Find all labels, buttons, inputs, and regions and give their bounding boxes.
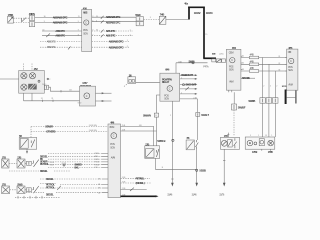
label column row1	[40, 155, 55, 166]
wire row4 left of ABS module	[42, 33, 82, 37]
relay left drop wire	[157, 95, 160, 146]
wire row4 CEM stub	[241, 77, 255, 80]
svg-text:ABS/ABS DTC: ABS/ABS DTC	[53, 16, 68, 19]
BCM bottom right row short	[121, 188, 147, 191]
pin labels on drops	[263, 86, 278, 88]
svg-text:SGN: SGN	[110, 147, 115, 149]
connector 24B	[42, 84, 49, 90]
relay right row3	[180, 84, 198, 87]
module 4/56 CEM	[226, 47, 241, 92]
ignition switch 7/8	[19, 135, 37, 154]
connector 3/6 mid	[124, 74, 136, 86]
wire sensor to connector row A	[13, 17, 29, 19]
dashed wire OTHERS row	[31, 130, 108, 133]
wire row3 CEM to right module	[241, 68, 287, 72]
wire 6A down to switch 7/8	[197, 116, 199, 140]
svg-text:17B9: 17B9	[252, 151, 258, 154]
bottom tick marks	[18, 196, 42, 199]
wire sensor to connector row B	[13, 22, 29, 24]
svg-text:BCM: BCM	[110, 127, 115, 129]
wire row3 left of ABS module	[42, 30, 82, 33]
svg-text:SGN: SGN	[288, 70, 293, 72]
node SW30 above relay module	[176, 60, 208, 73]
lamp unit box	[245, 137, 275, 154]
svg-text:4/4B: 4/4B	[250, 55, 255, 57]
wire row5 right of ABS module	[92, 41, 130, 44]
connector strip SW/6B	[248, 98, 278, 104]
svg-text:ABS DTC: ABS DTC	[47, 40, 56, 43]
svg-text:4/4B: 4/4B	[250, 62, 255, 64]
svg-text:DIESEL: DIESEL	[46, 193, 54, 196]
ABS module pin labels left	[78, 16, 81, 36]
BCM left pin labels lower	[98, 179, 108, 195]
dashed harness rows to BCM lower	[26, 179, 102, 193]
svg-text:F47 A: F47 A	[203, 65, 209, 68]
svg-text:POS: POS	[83, 30, 88, 32]
relay bottom drop V2	[170, 101, 173, 184]
node 53/60 B	[157, 139, 174, 143]
sensor 17B row2 a	[2, 184, 10, 194]
wire row1 right of ABS module	[92, 16, 136, 19]
svg-text:ABS/ABS DTC: ABS/ABS DTC	[106, 16, 121, 19]
relay 7/4B	[159, 14, 166, 25]
svg-text:AVM: AVM	[229, 80, 233, 83]
wire drop from row3	[274, 71, 276, 98]
svg-text:PETROL: PETROL	[136, 177, 145, 180]
svg-text:52/3B: 52/3B	[199, 169, 205, 173]
connector SW/9	[135, 14, 143, 26]
sensor 17B row2 b	[17, 184, 25, 194]
svg-text:ABS DTC: ABS DTC	[106, 35, 116, 38]
svg-text:ABS/ABS DTC: ABS/ABS DTC	[109, 41, 124, 44]
ground arrow V2	[167, 179, 173, 196]
wire drop from row1	[261, 58, 263, 98]
svg-text:(24V): (24V)	[219, 54, 223, 56]
bottom dashed stub row	[15, 196, 60, 198]
svg-text:POS: POS	[229, 67, 234, 69]
relay right row1	[180, 74, 198, 77]
wire SW/9 to relay	[144, 17, 160, 19]
svg-text:SGN: SGN	[83, 33, 88, 35]
svg-text:11C/34: 11C/34	[206, 12, 213, 15]
dashed drop to ignition switch	[30, 127, 32, 138]
svg-text:24-1B 10N: 24-1B 10N	[89, 125, 98, 127]
wire row4 right of ABS module	[92, 34, 133, 37]
feed wire horizontal to fuse row	[203, 57, 216, 59]
right module pin ticks left	[285, 58, 286, 72]
feed wire vertical 11C/34 down	[203, 7, 205, 59]
svg-text:ABS/ABS DTC: ABS/ABS DTC	[106, 21, 121, 24]
svg-text:ABS DTC: ABS DTC	[55, 35, 65, 38]
CEM pin ticks right	[241, 56, 242, 69]
connector 6A	[196, 113, 210, 118]
sensor 17B/4	[8, 14, 14, 23]
module 4/46 BCM	[108, 122, 121, 198]
connector 3/6 right	[232, 104, 246, 110]
svg-text:RELAY: RELAY	[162, 81, 170, 84]
right rows end pins	[127, 30, 132, 48]
wire drop to 6A connector	[197, 99, 199, 113]
relay right row2	[180, 77, 198, 80]
BCM right row2	[121, 130, 157, 132]
wire drop strip to lamp unit 3	[274, 103, 276, 137]
svg-text:ATM 6B: ATM 6B	[242, 77, 250, 80]
BCM bottom thick wire	[121, 194, 159, 197]
switch symbol row1	[34, 160, 39, 167]
wire switch to ground	[192, 150, 206, 197]
wire row6 right of ABS module	[92, 46, 130, 49]
ground wire from switch unit	[219, 150, 225, 197]
BCM right row1	[121, 125, 154, 146]
svg-text:DIESEL: DIESEL	[40, 170, 48, 173]
wire into cluster from left	[0, 78, 19, 80]
svg-text:SW/WN: SW/WN	[143, 114, 151, 117]
svg-text:SW30 BATT: SW30 BATT	[181, 74, 193, 77]
relay module 6/46	[160, 68, 180, 101]
svg-text:DIESEL: DIESEL	[46, 178, 54, 181]
wire fusebox to ground bus	[154, 158, 156, 169]
ground bracket right	[282, 86, 296, 104]
relay bottom right wire	[180, 97, 198, 99]
bus wire to POW module	[24, 98, 80, 102]
switch unit 17B/10	[221, 133, 240, 150]
svg-text:SW/BF: SW/BF	[238, 106, 246, 110]
svg-text:6413LT: 6413LT	[201, 113, 209, 117]
fuse box 17B left	[145, 143, 160, 158]
module 4/52 cluster	[19, 64, 45, 94]
wire row5 left of ABS module	[40, 40, 82, 43]
fuse row 4/49	[203, 53, 226, 69]
wire POW right upper with arrow	[96, 92, 112, 94]
wire 24B to POW module	[49, 87, 80, 91]
lamp unit top labels	[250, 135, 268, 137]
svg-text:SGN: SGN	[164, 99, 169, 101]
relay right row4	[180, 87, 198, 90]
wire row1 left of ABS module	[35, 16, 82, 19]
switch 7/8 right	[186, 137, 198, 150]
svg-text:53/60 B: 53/60 B	[157, 139, 165, 143]
junction 20-2B	[62, 163, 83, 169]
relay right row5	[180, 92, 198, 95]
wire diesel row1	[9, 170, 70, 173]
svg-text:CEM: CEM	[229, 52, 234, 54]
cluster drop wires	[24, 93, 33, 101]
svg-text:ABS DTC: ABS DTC	[106, 30, 116, 33]
pin labels above lamp unit	[258, 135, 273, 137]
svg-text:SENSR: SENSR	[45, 125, 53, 128]
svg-text:ABS DTC: ABS DTC	[55, 30, 65, 33]
wire drop strip to lamp unit 2	[268, 103, 270, 137]
power feed bracket 11C	[184, 3, 213, 20]
svg-text:POS: POS	[164, 96, 169, 98]
svg-text:POS: POS	[110, 144, 115, 146]
switch symbol S1	[22, 18, 27, 22]
wire row6 left of ABS module	[40, 46, 82, 50]
svg-text:11C/32: 11C/32	[194, 12, 201, 15]
svg-text:ABS DTC: ABS DTC	[47, 46, 56, 49]
ABS module pin labels right	[92, 16, 94, 37]
BCM left pin labels upper	[94, 153, 108, 169]
wire drop strip to lamp unit 1	[261, 103, 263, 137]
wire row2 left of ABS module	[35, 21, 82, 24]
wire POW right lower with arrow	[96, 100, 112, 102]
dashed wire SENSOR row	[31, 125, 108, 128]
svg-text:(DIESEL): (DIESEL)	[136, 182, 145, 185]
svg-text:NBI: NBI	[288, 52, 292, 54]
inline connector SW/WN	[143, 113, 159, 117]
inline connector row2	[27, 188, 32, 192]
svg-text:17B5: 17B5	[268, 151, 274, 154]
inline connector row1	[27, 161, 32, 165]
label column row2	[46, 178, 55, 197]
svg-text:AVM: AVM	[288, 84, 292, 87]
svg-text:AVM: AVM	[111, 157, 115, 160]
dashed harness rows to BCM upper	[48, 154, 102, 168]
wire row1 dashed	[9, 162, 33, 164]
svg-text:POS: POS	[288, 67, 293, 69]
wire row3 right of ABS module	[92, 30, 133, 33]
BCM bottom right row diesel	[121, 182, 152, 186]
module 4/56 right	[287, 47, 298, 90]
svg-text:ABS/ABS DTC: ABS/ABS DTC	[109, 46, 124, 49]
wire drop from row2	[268, 64, 270, 97]
ground bus wire	[155, 167, 196, 169]
wire row2 CEM to right module	[241, 62, 287, 66]
wire row2 right of ABS module	[92, 20, 136, 24]
dashed drop to switch unit	[233, 110, 235, 136]
sensor 17B row1 b	[17, 157, 25, 169]
module 4/16 ABS	[82, 7, 92, 51]
sensor 17B row1 a	[2, 157, 9, 169]
wire 3/6 to relay module	[136, 81, 160, 83]
svg-text:BKL: BKL	[75, 166, 80, 169]
svg-text:SW/6B: SW/6B	[248, 100, 255, 103]
wire CEM bottom drop	[233, 92, 235, 104]
svg-text:4/4B: 4/4B	[250, 68, 255, 70]
svg-text:PETROL: PETROL	[40, 163, 49, 166]
wire row1 CEM to right module	[241, 55, 287, 59]
module 17/17 POW SSM	[78, 82, 96, 106]
wire relay to feed bar	[166, 19, 188, 21]
BCM bottom right row petrol	[121, 177, 151, 180]
connector 4/4DN	[29, 13, 35, 27]
wire row2 dashed	[10, 189, 33, 191]
svg-text:SGN: SGN	[229, 70, 234, 72]
svg-text:ABS: ABS	[83, 11, 88, 14]
switch symbol row2	[34, 186, 39, 193]
svg-text:OTHERS: OTHERS	[46, 130, 56, 133]
svg-text:24-4B 10N: 24-4B 10N	[89, 130, 98, 132]
svg-text:ABS/ABS DTC: ABS/ABS DTC	[53, 21, 68, 24]
